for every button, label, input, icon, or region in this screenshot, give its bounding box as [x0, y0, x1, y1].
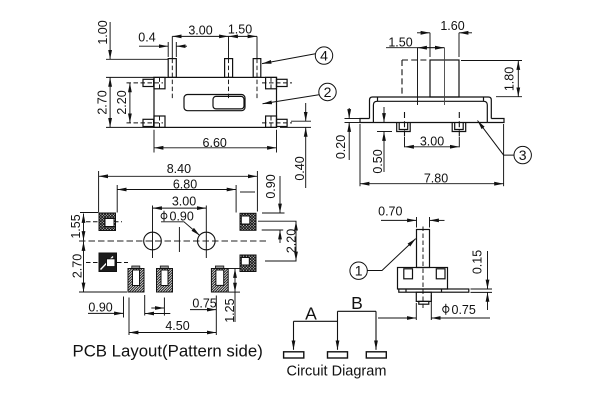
svg-text:PCB Layout(Pattern side): PCB Layout(Pattern side) [73, 342, 263, 361]
svg-text:1.25: 1.25 [223, 298, 237, 322]
svg-text:6.60: 6.60 [203, 136, 227, 150]
svg-text:4: 4 [320, 48, 328, 64]
svg-text:0.50: 0.50 [371, 149, 385, 173]
svg-text:0.15: 0.15 [471, 250, 485, 274]
svg-text:2.20: 2.20 [115, 90, 129, 114]
svg-text:0.40: 0.40 [293, 156, 307, 180]
svg-text:2: 2 [324, 84, 332, 100]
svg-text:0.75: 0.75 [192, 297, 216, 311]
svg-text:3: 3 [519, 147, 527, 163]
svg-text:A: A [305, 304, 317, 324]
svg-text:1.55: 1.55 [69, 214, 83, 238]
svg-text:3.00: 3.00 [172, 194, 196, 208]
svg-text:1.00: 1.00 [96, 20, 110, 44]
svg-text:1.80: 1.80 [503, 67, 517, 91]
svg-text:2.70: 2.70 [95, 90, 109, 114]
svg-text:8.40: 8.40 [167, 162, 191, 176]
svg-text:4.50: 4.50 [165, 319, 189, 333]
svg-text:0.75: 0.75 [452, 303, 476, 317]
svg-text:1.50: 1.50 [388, 35, 412, 49]
svg-text:1: 1 [355, 263, 363, 279]
svg-text:0.70: 0.70 [378, 205, 402, 219]
svg-text:1.50: 1.50 [228, 22, 252, 36]
svg-text:3.00: 3.00 [188, 23, 212, 37]
svg-text:0.90: 0.90 [264, 174, 278, 198]
svg-text:6.80: 6.80 [173, 178, 197, 192]
svg-text:3.00: 3.00 [420, 134, 444, 148]
svg-text:2.70: 2.70 [70, 254, 84, 278]
svg-text:Circuit Diagram: Circuit Diagram [287, 364, 387, 380]
svg-text:2.20: 2.20 [285, 229, 299, 253]
svg-text:0.90: 0.90 [88, 301, 112, 315]
svg-text:0.90: 0.90 [170, 210, 194, 224]
svg-text:0.4: 0.4 [138, 31, 155, 45]
svg-text:7.80: 7.80 [424, 171, 448, 185]
svg-text:0.20: 0.20 [334, 135, 348, 159]
svg-text:1.60: 1.60 [440, 19, 464, 33]
svg-text:B: B [351, 293, 363, 313]
